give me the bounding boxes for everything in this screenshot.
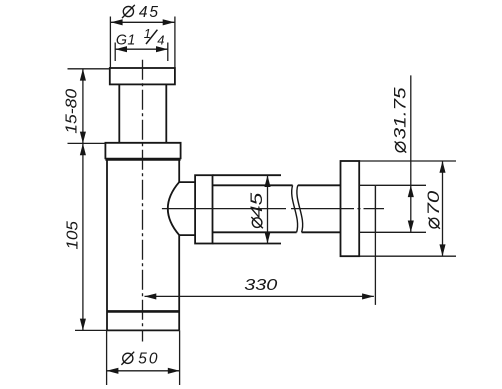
label dia45 top	[122, 4, 160, 21]
ext line dia31.75 top	[375, 184, 426, 186]
label dia70	[424, 191, 443, 229]
nut OD bottom line	[213, 243, 282, 245]
arrow 15-80 up	[80, 69, 86, 81]
body top flange	[105, 143, 180, 160]
ext line dia50 right	[179, 330, 181, 385]
ext line 15-80 top	[68, 68, 110, 70]
tube end face	[374, 185, 376, 232]
dim line dia70	[442, 161, 444, 256]
arrow dia31.75 up	[408, 185, 414, 197]
pipe OD bottom line left of break	[213, 231, 297, 233]
arrow 105 up	[80, 143, 86, 155]
arrow dia31.75 down	[408, 221, 414, 233]
label 15-80	[62, 88, 80, 134]
svg-text:45: 45	[139, 4, 160, 21]
arrow dia45 top left	[111, 19, 123, 25]
ext tick G left	[114, 43, 116, 62]
body right edge lower	[178, 235, 180, 330]
body flange thick bottom	[105, 158, 180, 161]
arrow dia50 right	[168, 368, 180, 374]
inlet pipe	[119, 84, 166, 142]
dim line dia50	[107, 370, 180, 372]
top inlet nut	[110, 68, 175, 84]
tube right of flange top	[359, 184, 375, 186]
pipe break curve 2	[297, 185, 303, 232]
arrow 15-80 down	[80, 132, 86, 144]
svg-text:330: 330	[244, 276, 277, 293]
svg-text:70: 70	[424, 191, 443, 216]
arrow dia45 outlet up	[264, 175, 270, 187]
dome bottom connector	[179, 234, 195, 236]
arrow 105 down	[80, 319, 86, 331]
svg-text:31.75: 31.75	[391, 87, 410, 139]
wall flange	[341, 161, 360, 256]
dim line 330	[145, 295, 374, 297]
dim line 15-80	[82, 69, 84, 144]
body right edge upper	[178, 159, 180, 182]
arrow dia70 up	[439, 161, 445, 173]
arrow G left	[115, 46, 127, 52]
dim line 105	[82, 143, 84, 330]
label dia50	[121, 351, 159, 368]
nut OD top line	[213, 174, 282, 176]
outlet collar	[195, 175, 212, 243]
arrow dia70 down	[439, 244, 445, 256]
arrow dia50 left	[107, 368, 119, 374]
tube right of flange bottom	[359, 231, 375, 233]
pipe OD top line right of break	[298, 184, 341, 186]
arrow dia45 top right	[163, 19, 175, 25]
pipe OD bottom line right of break	[302, 231, 341, 233]
arrow 330 left	[145, 293, 157, 299]
ext line 105 bottom	[75, 329, 107, 331]
centerline horizontal outlet	[162, 208, 384, 210]
dim line dia45 top	[111, 21, 175, 23]
label 105	[63, 220, 81, 249]
body bottom	[107, 329, 179, 331]
ext line dia45 top left	[109, 17, 111, 68]
dim line G	[115, 48, 168, 50]
dim line dia45 outlet	[267, 175, 269, 243]
ext line dia70 top	[359, 160, 456, 162]
pipe break curve 1	[292, 185, 298, 232]
label dia31.75	[391, 87, 410, 153]
svg-text:45: 45	[248, 192, 267, 218]
arrow dia45 outlet down	[264, 232, 270, 244]
ext tick G right	[167, 43, 169, 62]
svg-text:50: 50	[138, 351, 159, 368]
label dia45 outlet	[248, 192, 267, 228]
ext line dia70 bottom	[359, 255, 456, 257]
svg-text:105: 105	[63, 220, 81, 249]
dim line dia31.75	[410, 75, 412, 232]
svg-text:4: 4	[157, 32, 166, 47]
ext line 330 right (tube end)	[374, 232, 376, 305]
dome top connector	[179, 181, 195, 183]
outlet nut dome arc	[168, 182, 179, 235]
body left edge	[106, 159, 108, 330]
svg-text:1: 1	[144, 26, 153, 41]
ext line 15-80 bottom	[68, 142, 106, 144]
svg-text:15-80: 15-80	[62, 88, 80, 134]
ext line dia31.75 bottom	[375, 231, 426, 233]
arrow 330 right	[362, 293, 374, 299]
pipe OD top line left of break	[213, 184, 293, 186]
centerline vertical body	[142, 60, 144, 342]
svg-text:G1: G1	[116, 32, 136, 48]
bottom cap joint thick line	[107, 310, 179, 313]
ext line dia50 left	[106, 330, 108, 385]
ext line dia45 top right	[174, 17, 176, 68]
arrow G right	[156, 46, 168, 52]
label G fraction slash	[146, 30, 157, 44]
